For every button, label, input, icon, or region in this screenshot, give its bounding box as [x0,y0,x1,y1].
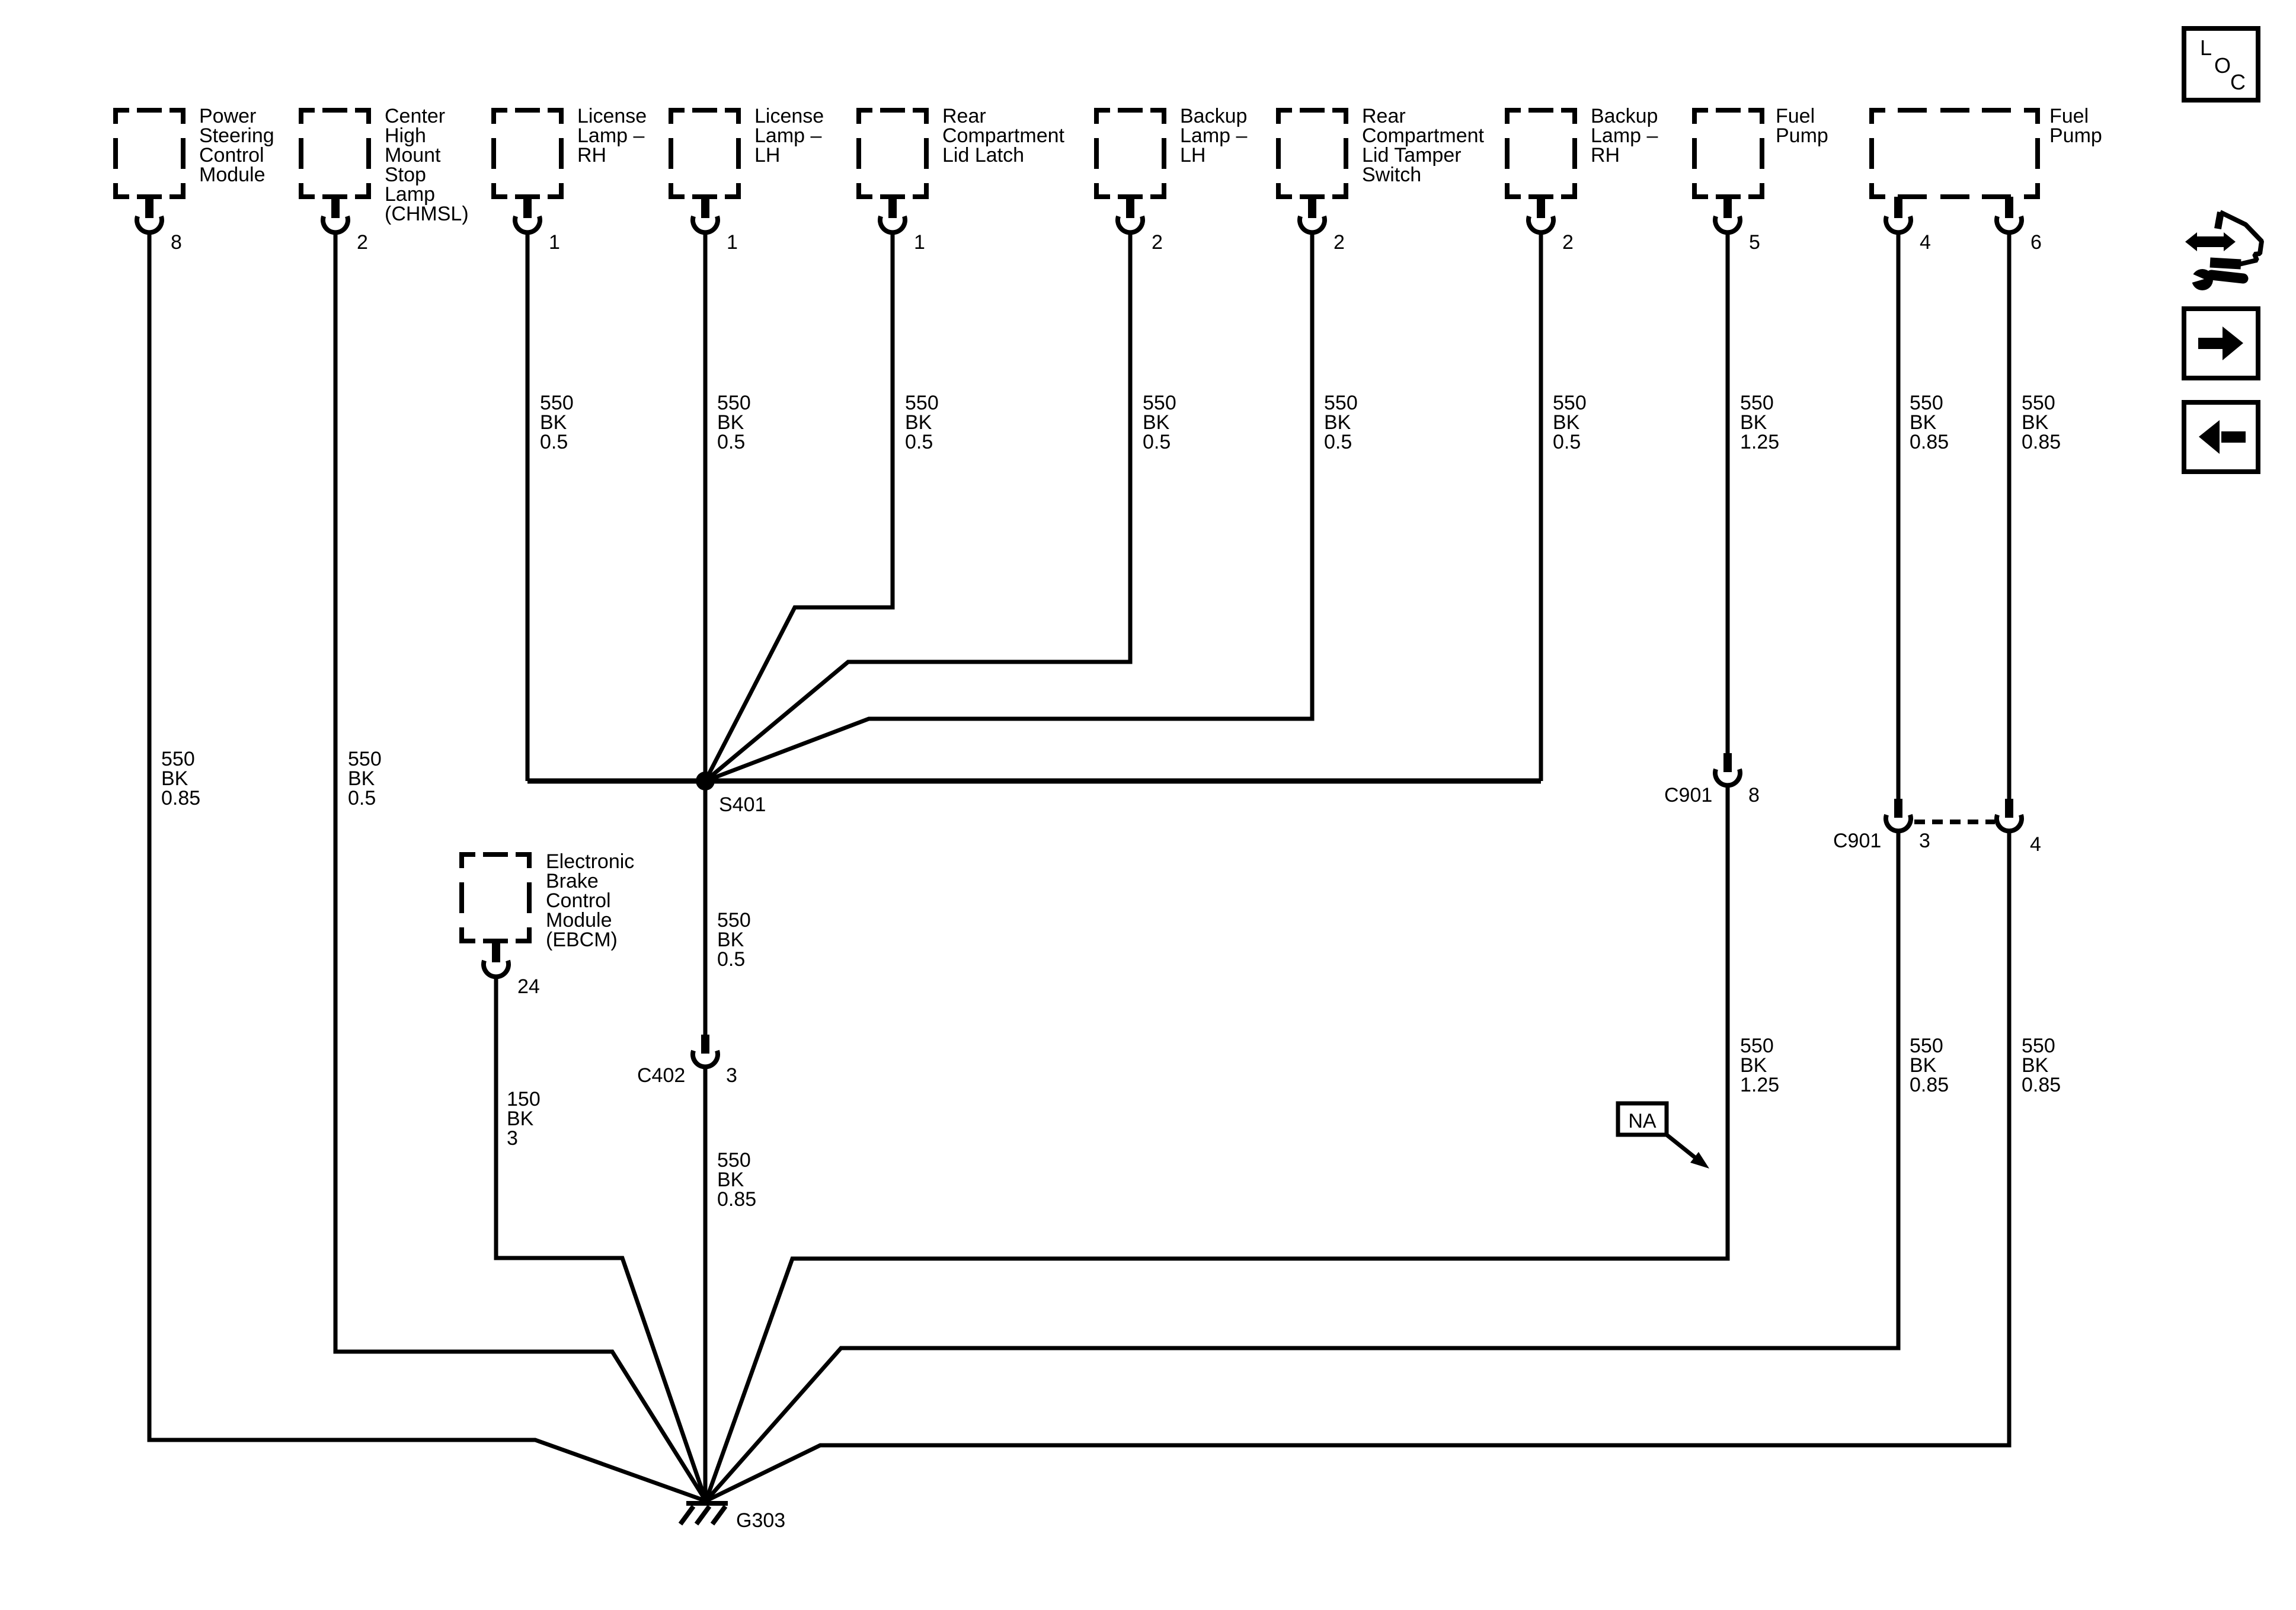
svg-text:0.85: 0.85 [1910,431,1949,453]
svg-text:0.5: 0.5 [1143,431,1171,453]
svg-text:C901: C901 [1664,784,1712,806]
component box: Backup Lamp RH [1505,105,1658,199]
svg-text:0.5: 0.5 [717,431,745,453]
wire 550 BK 0.5 from Rear Compartment Lid Latch to S401 [705,233,893,781]
svg-text:2: 2 [1334,231,1345,254]
svg-text:(EBCM): (EBCM) [546,929,618,951]
backward arrow box icon [2184,402,2258,472]
wire 550 BK 0.85 from C901 pin 4 to G303 [706,832,2009,1501]
svg-text:1.25: 1.25 [1740,431,1779,453]
svg-text:2: 2 [1562,231,1574,254]
wire label 550 BK 0.85 [161,748,200,809]
connector pin 2 of Backup Lamp RH [1528,197,1574,254]
connector pin 1 of Rear Compartment Lid Latch [880,197,925,254]
wire label 550 BK 0.85 upper pin4 [1910,392,1949,453]
wire 550 BK 1.25 from C901 pin 8 to G303 [706,786,1728,1501]
wire label 550 BK 0.85 upper pin6 [2022,392,2061,453]
wire 550 BK 0.85 from Power Steering Control Module pin 8 to G303 [149,233,706,1501]
svg-text:1: 1 [727,231,738,254]
wire label 550 BK 0.5 [1324,392,1358,453]
connector C901 pin 3 [1833,799,1930,852]
svg-text:4: 4 [1920,231,1931,254]
svg-text:C402: C402 [637,1064,685,1087]
component box: Rear Compartment Lid Latch [856,105,1065,199]
splice S401 [696,772,766,816]
wire 550 BK 0.5 from Backup Lamp LH to S401 [705,233,1130,781]
svg-text:NA: NA [1628,1110,1657,1132]
svg-text:G303: G303 [736,1509,785,1532]
svg-text:6: 6 [2030,231,2042,254]
svg-text:C: C [2230,70,2246,94]
wire 550 BK 0.5 below S401 [717,909,751,971]
svg-text:0.5: 0.5 [1324,431,1352,453]
NA note box with arrow [1618,1103,1709,1169]
forward arrow box icon [2184,309,2258,378]
svg-text:0.5: 0.5 [540,431,568,453]
svg-text:0.85: 0.85 [2022,1074,2061,1096]
service icon: double arrow with body outline and wrench [2185,212,2262,290]
svg-text:3: 3 [507,1127,518,1150]
svg-text:0.5: 0.5 [717,948,745,971]
connector C901 pin 4 [1997,799,2041,856]
LOC reference box [2184,28,2258,100]
wire 550 BK 0.85 from Fuel Pump pin 6 to C901 [2007,233,2012,800]
svg-text:(CHMSL): (CHMSL) [385,203,469,225]
wire label 550 BK 0.85 lower pin3 [1910,1035,1949,1096]
component box: License Lamp LH [669,105,824,199]
wire 550 BK 0.5 from License Lamp RH to splice S401 [526,233,530,781]
wire 550 BK 1.25 from Fuel Pump pin 5 to C901 [1726,233,1730,754]
svg-text:0.85: 0.85 [161,787,200,809]
wire label 550 BK 0.5 [905,392,939,453]
svg-text:Pump: Pump [2049,124,2102,147]
connector pin 1 of License Lamp LH [693,197,738,254]
wire 150 BK 3 from EBCM pin 24 to G303 [496,978,706,1501]
connector pin 2 of Rear Compartment Lid Tamper Switch [1300,197,1345,254]
svg-text:0.85: 0.85 [2022,431,2061,453]
S401 bus horizontal wire [527,779,1541,784]
connector pin 6 of Fuel Pump [1997,197,2042,254]
wire label 550 BK 1.25 lower [1740,1035,1779,1096]
wire label 550 BK 0.85 [717,1149,756,1211]
wire label 550 BK 0.5 [348,748,382,809]
svg-text:Pump: Pump [1776,124,1828,147]
svg-text:L: L [2200,36,2212,60]
component box: Electronic Brake Control Module (EBCM) [459,850,634,951]
svg-text:24: 24 [517,975,540,998]
connector pin 2 of Center High Mount Stop Lamp (CHMSL) [323,197,368,254]
svg-text:1.25: 1.25 [1740,1074,1779,1096]
svg-text:8: 8 [1748,784,1760,806]
svg-text:4: 4 [2030,833,2041,856]
component box: Rear Compartment Lid Tamper Switch [1276,105,1485,199]
component box: License Lamp RH [491,105,647,199]
svg-text:1: 1 [914,231,925,254]
svg-text:8: 8 [171,231,182,254]
svg-text:0.85: 0.85 [717,1188,756,1211]
wire 550 BK 0.5 from License Lamp LH through S401 to C402 [703,233,708,1036]
connector pin 5 of Fuel Pump [1715,197,1760,254]
svg-text:0.5: 0.5 [1553,431,1581,453]
svg-text:0.5: 0.5 [348,787,376,809]
wire label 150 BK 3 [507,1088,541,1150]
svg-text:O: O [2214,53,2231,78]
connector C402 pin 3 [637,1035,737,1087]
ground G303 [680,1503,785,1532]
connector pin 8 of Power Steering Control Module [137,197,182,254]
svg-text:0.85: 0.85 [1910,1074,1949,1096]
component box: Backup Lamp LH [1094,105,1247,199]
wire label 550 BK 0.85 lower pin4 [2022,1035,2061,1096]
connector C901 pin 8 [1664,753,1760,806]
wire label 550 BK 0.5 [1143,392,1176,453]
wire 550 BK 0.85 from C901 pin 3 to G303 [706,832,1898,1501]
C901 connector dashed link line [1914,820,1995,824]
connector pin 2 of Backup Lamp LH [1118,197,1163,254]
wire 550 BK 0.5 from Backup Lamp RH to S401 [1539,233,1543,781]
svg-text:Lid Latch: Lid Latch [942,144,1024,167]
wire 550 BK 0.85 from Fuel Pump pin 4 to C901 [1897,233,1901,800]
svg-text:LH: LH [1180,144,1205,167]
svg-text:3: 3 [1919,830,1930,852]
svg-text:5: 5 [1749,231,1760,254]
svg-text:Module: Module [199,164,266,186]
wire label 550 BK 0.5 [540,392,574,453]
component box: Fuel Pump (wide) [1869,105,2102,199]
svg-text:S401: S401 [719,793,766,816]
wire 550 BK 0.5 from CHMSL pin 2 to G303 [335,233,706,1501]
wire 550 BK 0.5 from Rear Compartment Lid Tamper Switch to S401 [705,233,1312,781]
wire label 550 BK 0.5 [717,392,751,453]
wire label 550 BK 1.25 upper [1740,392,1779,453]
svg-text:2: 2 [357,231,368,254]
svg-text:1: 1 [549,231,560,254]
svg-text:C901: C901 [1833,830,1881,852]
svg-text:2: 2 [1152,231,1163,254]
component box: Fuel Pump [1692,105,1828,199]
component box: Center High Mount Stop Lamp (CHMSL) [299,105,469,225]
component box: Power Steering Control Module [113,105,274,199]
svg-text:Switch: Switch [1362,164,1421,186]
wire label 550 BK 0.5 [1553,392,1587,453]
svg-text:RH: RH [577,144,606,167]
connector pin 24 of EBCM [484,941,540,998]
svg-text:3: 3 [726,1064,737,1087]
connector pin 1 of License Lamp RH [515,197,560,254]
svg-text:LH: LH [754,144,780,167]
connector pin 4 of Fuel Pump [1886,197,1931,254]
svg-text:0.5: 0.5 [905,431,933,453]
svg-text:RH: RH [1591,144,1620,167]
wire 550 BK 0.85 from C402 to G303 [703,1068,708,1501]
